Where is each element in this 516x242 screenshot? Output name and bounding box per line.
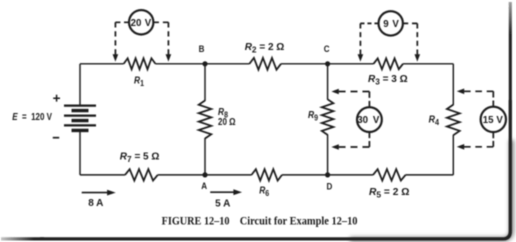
resistor R9 bbox=[322, 99, 334, 135]
wire R9 to node D bbox=[327, 134, 329, 175]
label R2 = 2 ohm bbox=[245, 42, 285, 55]
label R9 bbox=[308, 109, 318, 122]
svg-text:R3 = 3 Ω: R3 = 3 Ω bbox=[368, 74, 408, 87]
node A bbox=[202, 172, 207, 177]
wire node C to R9 bbox=[327, 64, 329, 100]
svg-text:C: C bbox=[324, 43, 330, 54]
svg-text:20 Ω: 20 Ω bbox=[218, 116, 236, 127]
label 20 ohm bbox=[218, 116, 236, 127]
wire node B to R8 bbox=[204, 64, 206, 101]
wire R7 to R6 through node A bbox=[158, 174, 252, 176]
battery + sign bbox=[53, 95, 60, 102]
svg-text:D: D bbox=[327, 181, 333, 192]
resistor R2 bbox=[249, 58, 281, 70]
wire R8 to node A bbox=[204, 138, 206, 175]
wire R4 to bottom right corner bbox=[452, 135, 454, 175]
svg-text:R5 = 2 Ω: R5 = 2 Ω bbox=[369, 187, 409, 200]
wire R6 to R5 through node D bbox=[282, 174, 373, 176]
voltmeter 15 V bbox=[481, 107, 506, 132]
arrow of 9 V left lead bbox=[358, 54, 364, 61]
label R5 = 2 ohm bbox=[369, 187, 409, 200]
arrow of 9 V right lead bbox=[415, 54, 421, 61]
caption FIGURE 12-10 Circuit for Example 12-10 bbox=[162, 215, 358, 228]
dashed leads of 30 V meter bbox=[368, 92, 370, 108]
dashed leads of 15 V meter bbox=[492, 91, 494, 106]
resistor R1 bbox=[124, 58, 156, 69]
voltmeter 20 V bbox=[129, 10, 153, 34]
svg-text:5 A: 5 A bbox=[215, 198, 230, 209]
node C bbox=[325, 61, 330, 66]
battery E (plates) bbox=[64, 106, 96, 131]
current arrow 8 A bbox=[82, 192, 108, 194]
resistor R8 bbox=[199, 101, 212, 139]
resistor R4 bbox=[447, 105, 460, 136]
resistor R6 bbox=[252, 169, 283, 180]
wire R1 to R2 through node B bbox=[155, 63, 249, 65]
current arrow 5 A bbox=[210, 191, 234, 193]
node label B bbox=[199, 43, 205, 54]
arrow of 30 V top lead bbox=[331, 89, 338, 95]
svg-text:R7 = 5 Ω: R7 = 5 Ω bbox=[120, 152, 160, 165]
battery - sign bbox=[53, 137, 59, 139]
svg-text:Circuit for Example 12–10: Circuit for Example 12–10 bbox=[240, 215, 358, 228]
svg-text:E = 120 V: E = 120 V bbox=[12, 111, 52, 122]
wire R2 to R3 through node C bbox=[281, 63, 374, 65]
node label D bbox=[327, 181, 333, 192]
dashed leads of 20 V meter bbox=[115, 21, 129, 23]
node D bbox=[325, 172, 330, 177]
wire top left corner to R1 bbox=[80, 63, 124, 65]
label R7 = 5 ohm bbox=[120, 152, 160, 165]
wire R3 to top right corner bbox=[403, 63, 453, 65]
arrow of 15 V bottom lead bbox=[457, 144, 464, 150]
node label A bbox=[201, 180, 207, 191]
wire left branch top to battery bbox=[79, 64, 81, 105]
label E = 120 V bbox=[12, 111, 52, 122]
arrow of 30 V bottom lead bbox=[331, 144, 338, 150]
svg-text:FIGURE 12–10: FIGURE 12–10 bbox=[162, 215, 230, 228]
wire top right corner to R4 bbox=[452, 64, 454, 105]
svg-text:A: A bbox=[201, 180, 207, 191]
arrow of 15 V top lead bbox=[457, 89, 464, 95]
node B bbox=[202, 61, 207, 66]
resistor R3 bbox=[374, 58, 404, 69]
svg-text:R2 = 2 Ω: R2 = 2 Ω bbox=[245, 42, 285, 55]
voltmeter 30 V bbox=[357, 107, 382, 132]
wire R5 to bottom right corner bbox=[406, 174, 454, 176]
svg-text:15V: 15V bbox=[483, 115, 504, 126]
resistor R5 bbox=[373, 169, 406, 180]
label R6 bbox=[259, 185, 269, 198]
label R4 bbox=[429, 113, 440, 127]
label R8 bbox=[218, 106, 229, 119]
label R3 = 3 ohm bbox=[368, 74, 408, 87]
label 8 A bbox=[88, 198, 103, 209]
svg-text:8 A: 8 A bbox=[88, 198, 103, 209]
resistor R7 bbox=[125, 169, 158, 180]
wire bottom left corner to R7 bbox=[80, 174, 125, 176]
svg-text:20V: 20V bbox=[131, 18, 152, 29]
arrow of 20 V right lead bbox=[166, 54, 172, 61]
voltmeter 9 V bbox=[379, 11, 403, 35]
label R1 bbox=[134, 75, 145, 88]
dashed leads of 9 V meter bbox=[360, 22, 378, 24]
wire battery to bottom left corner bbox=[79, 131, 81, 175]
arrow of 20 V left lead bbox=[113, 54, 119, 61]
node label C bbox=[324, 43, 330, 54]
label 5 A bbox=[215, 198, 230, 209]
svg-text:B: B bbox=[199, 43, 205, 54]
